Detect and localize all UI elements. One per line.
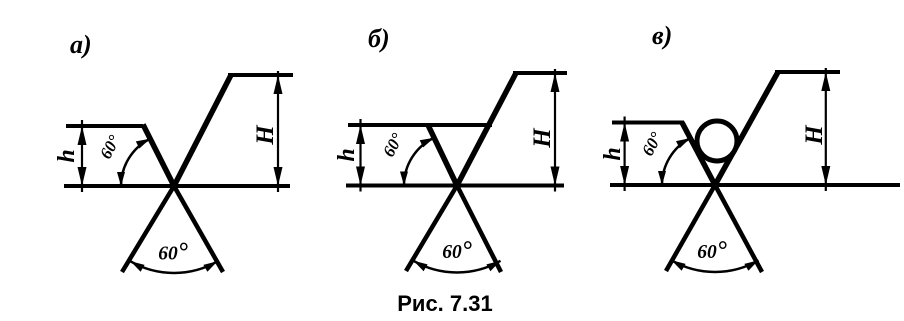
svg-text:б): б) xyxy=(368,24,390,53)
svg-text:60°: 60° xyxy=(697,237,727,264)
svg-text:60°: 60° xyxy=(638,129,666,159)
svg-text:а): а) xyxy=(70,30,92,59)
svg-text:в): в) xyxy=(652,21,672,50)
svg-text:h: h xyxy=(334,148,360,161)
svg-text:Рис. 7.31: Рис. 7.31 xyxy=(397,291,492,316)
svg-text:H: H xyxy=(252,124,279,146)
svg-text:60°: 60° xyxy=(379,130,407,160)
svg-text:H: H xyxy=(801,124,828,146)
svg-text:h: h xyxy=(600,147,626,160)
svg-text:60°: 60° xyxy=(96,132,124,162)
svg-text:60°: 60° xyxy=(158,239,188,266)
svg-text:60°: 60° xyxy=(442,237,472,264)
svg-text:H: H xyxy=(529,127,556,149)
svg-text:h: h xyxy=(54,149,80,162)
